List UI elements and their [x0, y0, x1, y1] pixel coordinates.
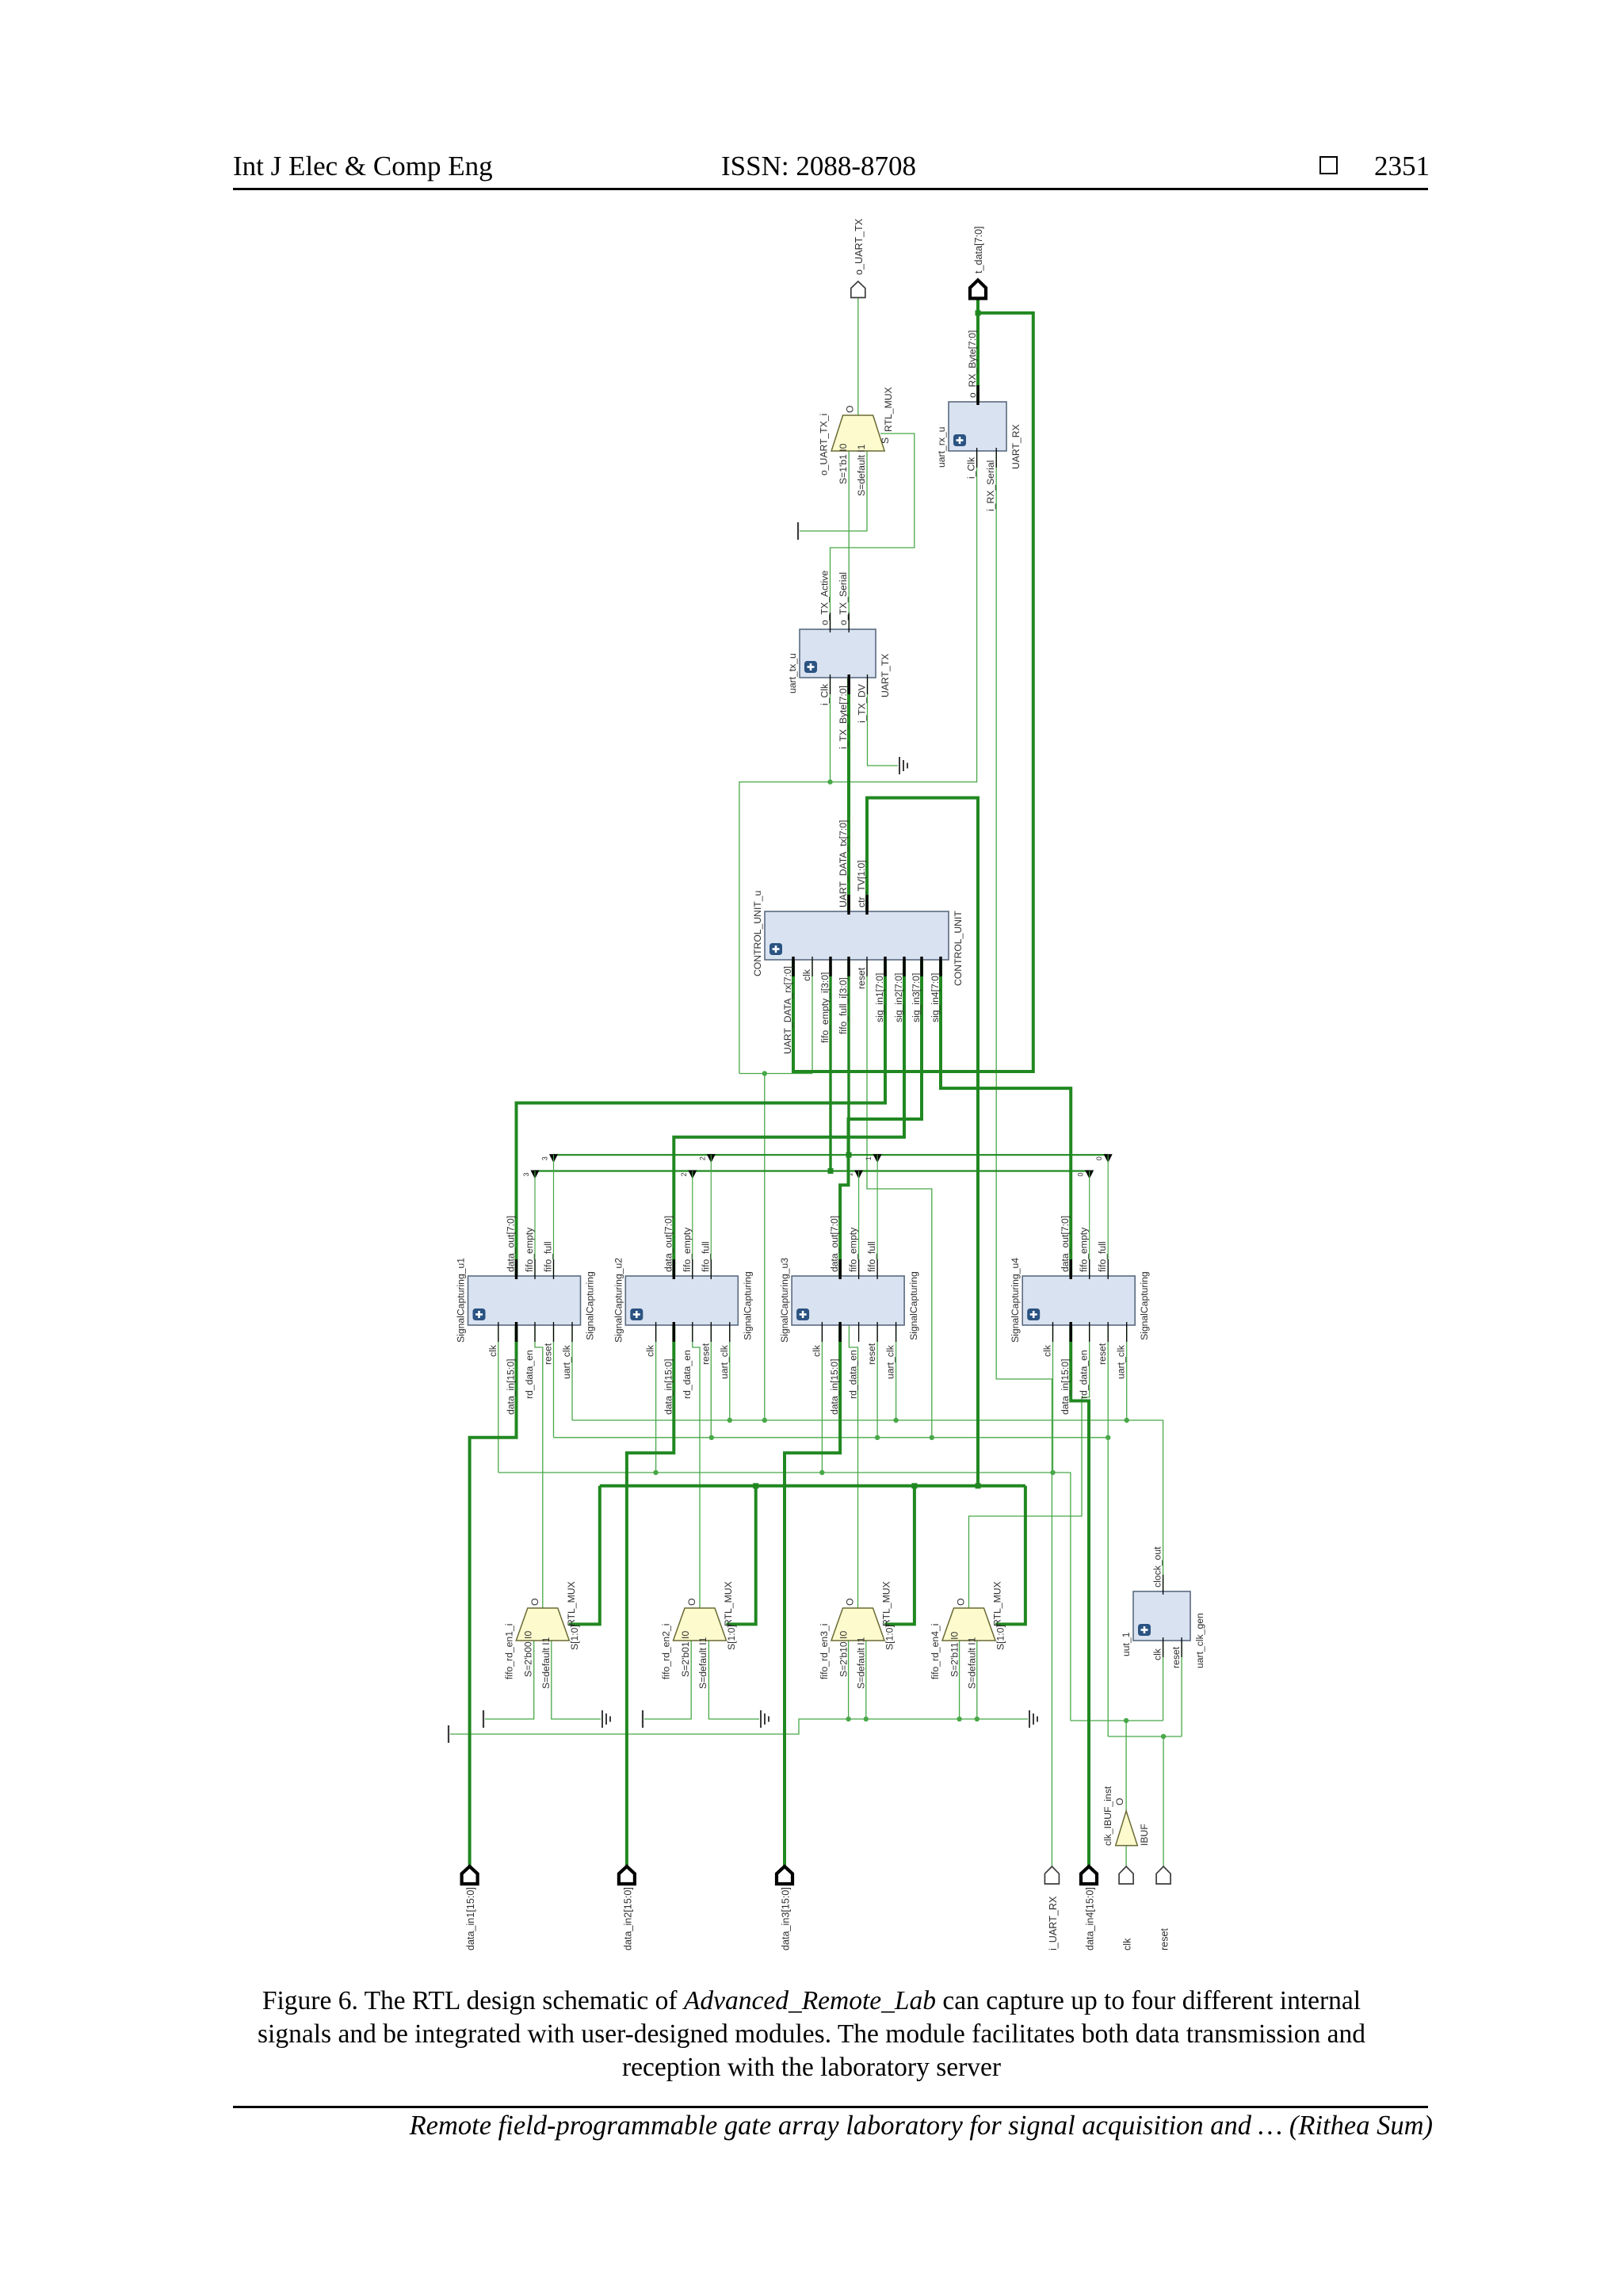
svg-text:S=default I1: S=default I1: [540, 1637, 552, 1689]
svg-text:S=2'b01 I0: S=2'b01 I0: [680, 1631, 691, 1677]
svg-text:rd_data_en: rd_data_en: [524, 1350, 535, 1399]
svg-text:reset: reset: [1159, 1928, 1170, 1950]
svg-text:rd_data_en: rd_data_en: [682, 1350, 693, 1399]
svg-text:o_UART_TX_i: o_UART_TX_i: [818, 414, 829, 476]
svg-text:o_UART_TX: o_UART_TX: [854, 218, 865, 275]
svg-text:S[1:0]: S[1:0]: [995, 1625, 1006, 1650]
svg-text:fifo_full: fifo_full: [866, 1241, 877, 1272]
svg-text:fifo_full: fifo_full: [543, 1241, 554, 1272]
svg-text:sig_in1[7:0]: sig_in1[7:0]: [874, 973, 885, 1022]
svg-text:fifo_empty_i[3:0]: fifo_empty_i[3:0]: [819, 972, 831, 1043]
svg-text:O: O: [845, 1599, 856, 1606]
svg-text:clk: clk: [801, 968, 812, 981]
svg-text:SignalCapturing: SignalCapturing: [742, 1271, 753, 1340]
svg-text:UART_RX: UART_RX: [1010, 424, 1022, 469]
svg-text:clk: clk: [645, 1344, 656, 1357]
svg-text:uart_rx_u: uart_rx_u: [936, 427, 947, 468]
svg-text:S=default I1: S=default I1: [967, 1637, 978, 1689]
svg-text:o_TX_Active: o_TX_Active: [819, 571, 831, 625]
svg-text:i_TX_DV: i_TX_DV: [857, 683, 868, 723]
svg-text:1: 1: [865, 1156, 873, 1160]
svg-text:clk: clk: [811, 1344, 822, 1357]
svg-text:CONTROL_UNIT_u: CONTROL_UNIT_u: [752, 891, 763, 976]
svg-text:clk: clk: [487, 1344, 498, 1357]
svg-text:data_out[7:0]: data_out[7:0]: [663, 1216, 674, 1272]
svg-text:SignalCapturing_u4: SignalCapturing_u4: [1010, 1258, 1021, 1343]
svg-text:uart_clk: uart_clk: [1116, 1344, 1127, 1379]
svg-text:data_in4[15:0]: data_in4[15:0]: [1085, 1887, 1096, 1950]
svg-text:ctr_TV[1:0]: ctr_TV[1:0]: [856, 860, 867, 907]
svg-text:0: 0: [1077, 1172, 1085, 1176]
svg-text:data_in[15:0]: data_in[15:0]: [1060, 1359, 1071, 1415]
svg-text:fifo_full: fifo_full: [1097, 1241, 1108, 1272]
svg-text:fifo_empty: fifo_empty: [1079, 1227, 1090, 1272]
svg-text:SignalCapturing: SignalCapturing: [908, 1271, 919, 1340]
svg-text:data_in[15:0]: data_in[15:0]: [663, 1359, 674, 1415]
svg-text:fifo_empty: fifo_empty: [848, 1227, 859, 1272]
svg-text:SignalCapturing_u3: SignalCapturing_u3: [779, 1258, 790, 1343]
svg-text:data_out[7:0]: data_out[7:0]: [506, 1216, 517, 1272]
svg-text:uart_clk: uart_clk: [885, 1344, 896, 1379]
svg-text:S=default I1: S=default I1: [856, 1637, 867, 1689]
svg-text:sig_in4[7:0]: sig_in4[7:0]: [930, 973, 941, 1022]
svg-text:o_TX_Serial: o_TX_Serial: [838, 572, 849, 625]
svg-text:uart_clk_gen: uart_clk_gen: [1194, 1613, 1205, 1668]
svg-text:uut_1: uut_1: [1121, 1632, 1132, 1656]
svg-text:reset: reset: [1170, 1646, 1182, 1668]
svg-text:S=default I1: S=default I1: [697, 1637, 708, 1689]
svg-text:data_in3[15:0]: data_in3[15:0]: [781, 1887, 792, 1950]
svg-text:rd_data_en: rd_data_en: [848, 1350, 859, 1399]
svg-text:UART_TX: UART_TX: [880, 654, 891, 697]
svg-text:CONTROL_UNIT: CONTROL_UNIT: [953, 911, 964, 986]
svg-text:3: 3: [522, 1172, 530, 1176]
svg-text:fifo_rd_en3_i: fifo_rd_en3_i: [819, 1624, 830, 1679]
svg-text:UART_DATA_tx[7:0]: UART_DATA_tx[7:0]: [838, 820, 849, 907]
svg-text:reset: reset: [700, 1343, 711, 1365]
svg-text:S=2'b11 I0: S=2'b11 I0: [949, 1631, 960, 1677]
svg-text:data_out[7:0]: data_out[7:0]: [829, 1216, 840, 1272]
svg-text:clk: clk: [1042, 1344, 1053, 1357]
svg-text:fifo_empty: fifo_empty: [524, 1227, 535, 1272]
svg-text:O: O: [529, 1599, 540, 1606]
svg-text:2: 2: [698, 1156, 706, 1160]
svg-text:S: S: [880, 437, 891, 444]
svg-text:UART_DATA_rx[7:0]: UART_DATA_rx[7:0]: [782, 966, 793, 1054]
svg-text:i_RX_Serial: i_RX_Serial: [985, 460, 996, 511]
svg-text:S[1:0]: S[1:0]: [726, 1625, 737, 1650]
svg-text:SignalCapturing: SignalCapturing: [585, 1271, 596, 1340]
svg-text:fifo_rd_en1_i: fifo_rd_en1_i: [504, 1624, 515, 1679]
svg-text:S=1'b1 I0: S=1'b1 I0: [838, 443, 849, 484]
svg-text:S=2'b10 I0: S=2'b10 I0: [838, 1631, 849, 1677]
svg-text:t_data[7:0]: t_data[7:0]: [973, 226, 984, 273]
svg-text:data_out[7:0]: data_out[7:0]: [1060, 1216, 1071, 1272]
svg-text:rd_data_en: rd_data_en: [1079, 1350, 1090, 1399]
svg-text:uart_clk: uart_clk: [561, 1344, 572, 1379]
svg-text:O: O: [845, 406, 856, 413]
svg-text:clk_IBUF_inst: clk_IBUF_inst: [1102, 1786, 1113, 1846]
svg-text:i_UART_RX: i_UART_RX: [1048, 1896, 1059, 1950]
svg-text:S=default I1: S=default I1: [856, 444, 867, 496]
svg-text:fifo_empty: fifo_empty: [682, 1227, 693, 1272]
svg-text:data_in[15:0]: data_in[15:0]: [829, 1359, 840, 1415]
svg-text:clock_out: clock_out: [1152, 1546, 1163, 1587]
svg-text:uart_tx_u: uart_tx_u: [787, 653, 798, 693]
svg-text:data_in1[15:0]: data_in1[15:0]: [465, 1887, 476, 1950]
svg-text:O: O: [956, 1599, 967, 1606]
svg-text:o_RX_Byte[7:0]: o_RX_Byte[7:0]: [967, 330, 978, 398]
svg-text:S[1:0]: S[1:0]: [884, 1625, 896, 1650]
svg-text:reset: reset: [1097, 1343, 1108, 1365]
svg-text:RTL_MUX: RTL_MUX: [883, 387, 894, 432]
svg-text:sig_in2[7:0]: sig_in2[7:0]: [893, 973, 904, 1022]
svg-text:sig_in3[7:0]: sig_in3[7:0]: [911, 973, 922, 1022]
svg-text:reset: reset: [856, 967, 867, 989]
svg-text:reset: reset: [866, 1343, 877, 1365]
svg-text:RTL_MUX: RTL_MUX: [881, 1581, 892, 1626]
svg-text:O: O: [1114, 1798, 1125, 1805]
svg-text:fifo_full_i[3:0]: fifo_full_i[3:0]: [838, 977, 849, 1034]
svg-text:fifo_rd_en4_i: fifo_rd_en4_i: [930, 1624, 941, 1679]
svg-text:uart_clk: uart_clk: [719, 1344, 730, 1379]
svg-text:SignalCapturing_u1: SignalCapturing_u1: [456, 1258, 467, 1343]
svg-text:2: 2: [680, 1172, 688, 1176]
svg-text:S[1:0]: S[1:0]: [569, 1625, 580, 1650]
svg-text:O: O: [686, 1599, 697, 1606]
svg-text:clk: clk: [1122, 1938, 1133, 1950]
svg-text:fifo_rd_en2_i: fifo_rd_en2_i: [661, 1624, 672, 1679]
svg-text:RTL_MUX: RTL_MUX: [723, 1581, 734, 1626]
svg-text:RTL_MUX: RTL_MUX: [566, 1581, 577, 1626]
svg-text:i_Clk: i_Clk: [819, 683, 831, 705]
svg-text:i_TX_Byte[7:0]: i_TX_Byte[7:0]: [838, 686, 849, 749]
svg-text:IBUF: IBUF: [1139, 1824, 1150, 1846]
svg-text:3: 3: [541, 1156, 549, 1160]
svg-text:fifo_full: fifo_full: [700, 1241, 711, 1272]
svg-text:SignalCapturing_u2: SignalCapturing_u2: [613, 1258, 624, 1343]
svg-text:clk: clk: [1152, 1648, 1163, 1660]
svg-text:reset: reset: [543, 1343, 554, 1365]
svg-text:RTL_MUX: RTL_MUX: [992, 1581, 1003, 1626]
svg-text:data_in2[15:0]: data_in2[15:0]: [622, 1887, 633, 1950]
svg-text:SignalCapturing: SignalCapturing: [1139, 1271, 1150, 1340]
svg-text:i_Clk: i_Clk: [966, 457, 977, 479]
svg-text:0: 0: [1095, 1156, 1103, 1160]
svg-text:data_in[15:0]: data_in[15:0]: [506, 1359, 517, 1415]
svg-text:S=2'b00 I0: S=2'b00 I0: [523, 1631, 534, 1677]
